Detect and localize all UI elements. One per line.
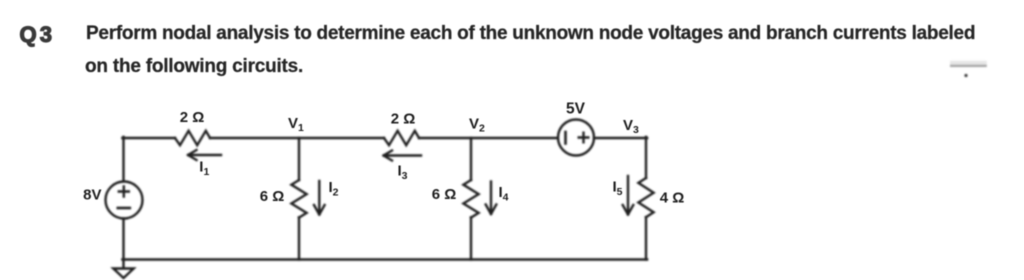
svg-text:I5: I5	[613, 179, 623, 199]
wire: bottom rail	[122, 258, 647, 260]
voltage source VS1 8V	[106, 182, 143, 219]
current arrow I5	[623, 176, 634, 215]
resistor R3 6Ω vertical	[291, 180, 306, 218]
wire: top rail from R1 through node V1 to resistor R2	[210, 137, 384, 139]
node label V2	[469, 116, 485, 135]
voltage source VS2 5V	[558, 120, 594, 156]
resistor R1 2Ω horizontal	[175, 131, 210, 145]
current arrow I3	[384, 151, 422, 161]
node label V1	[288, 115, 304, 134]
resistor R2 2Ω horizontal	[384, 131, 419, 145]
svg-text:6 Ω: 6 Ω	[260, 188, 285, 205]
label VS1 value 8V	[83, 187, 101, 204]
wire: V1 branch below R3 to bottom rail	[298, 217, 300, 259]
current arrow I2	[314, 181, 325, 215]
label R4 value 6 Ω	[432, 186, 457, 203]
label VS2 value 5V	[566, 101, 586, 118]
label R3 value 6 Ω	[260, 188, 285, 205]
resistor R5 4Ω vertical	[638, 178, 653, 217]
wire: top rail left corner to resistor R1	[122, 137, 175, 139]
node label V3	[623, 117, 639, 136]
wire: top rail from R2 through node V2 to 5V source	[419, 137, 558, 139]
svg-text:I2: I2	[329, 179, 339, 199]
svg-text:I3: I3	[398, 163, 408, 183]
label R5 value 4 Ω	[660, 190, 685, 207]
svg-text:5V: 5V	[566, 101, 586, 118]
wire: left vertical from top rail to 8V source	[122, 137, 124, 182]
ground	[113, 269, 133, 279]
svg-text:V2: V2	[469, 116, 485, 135]
wire: right vertical from top-right corner to resistor R5	[645, 137, 647, 178]
scrollbar artifact bar	[950, 61, 987, 67]
svg-text:I1: I1	[199, 159, 209, 179]
wire: ground stub below bottom rail	[122, 260, 124, 269]
label I2	[329, 179, 339, 199]
wire: node V1 branch from top rail to resistor R3	[298, 138, 300, 180]
current arrow I1	[188, 150, 221, 160]
wire: node V2 branch from top rail to resistor R4	[470, 138, 472, 180]
current arrow I4	[486, 182, 497, 215]
svg-text:V3: V3	[623, 117, 639, 136]
wire: left vertical below 8V to bottom rail	[122, 219, 124, 260]
wire: 5V source to top-right corner	[594, 137, 647, 139]
label R1 value 2 Ω	[180, 109, 205, 126]
svg-text:I4: I4	[499, 184, 509, 204]
svg-text:2 Ω: 2 Ω	[391, 111, 416, 128]
wire: V2 branch below R4 to bottom rail	[470, 217, 472, 259]
svg-text:8V: 8V	[83, 187, 101, 204]
svg-text:4 Ω: 4 Ω	[660, 190, 685, 207]
resistor R4 6Ω vertical	[463, 180, 478, 218]
svg-text:6 Ω: 6 Ω	[432, 186, 457, 203]
label R2 value 2 Ω	[391, 111, 416, 128]
label I1	[199, 159, 209, 179]
label I4	[499, 184, 509, 204]
svg-text:V1: V1	[288, 115, 304, 134]
svg-text:2 Ω: 2 Ω	[180, 109, 205, 126]
wire: right vertical below R5 to bottom rail	[645, 217, 647, 259]
label I3	[398, 163, 408, 183]
label I5	[613, 179, 623, 199]
artifact dot	[964, 74, 967, 77]
